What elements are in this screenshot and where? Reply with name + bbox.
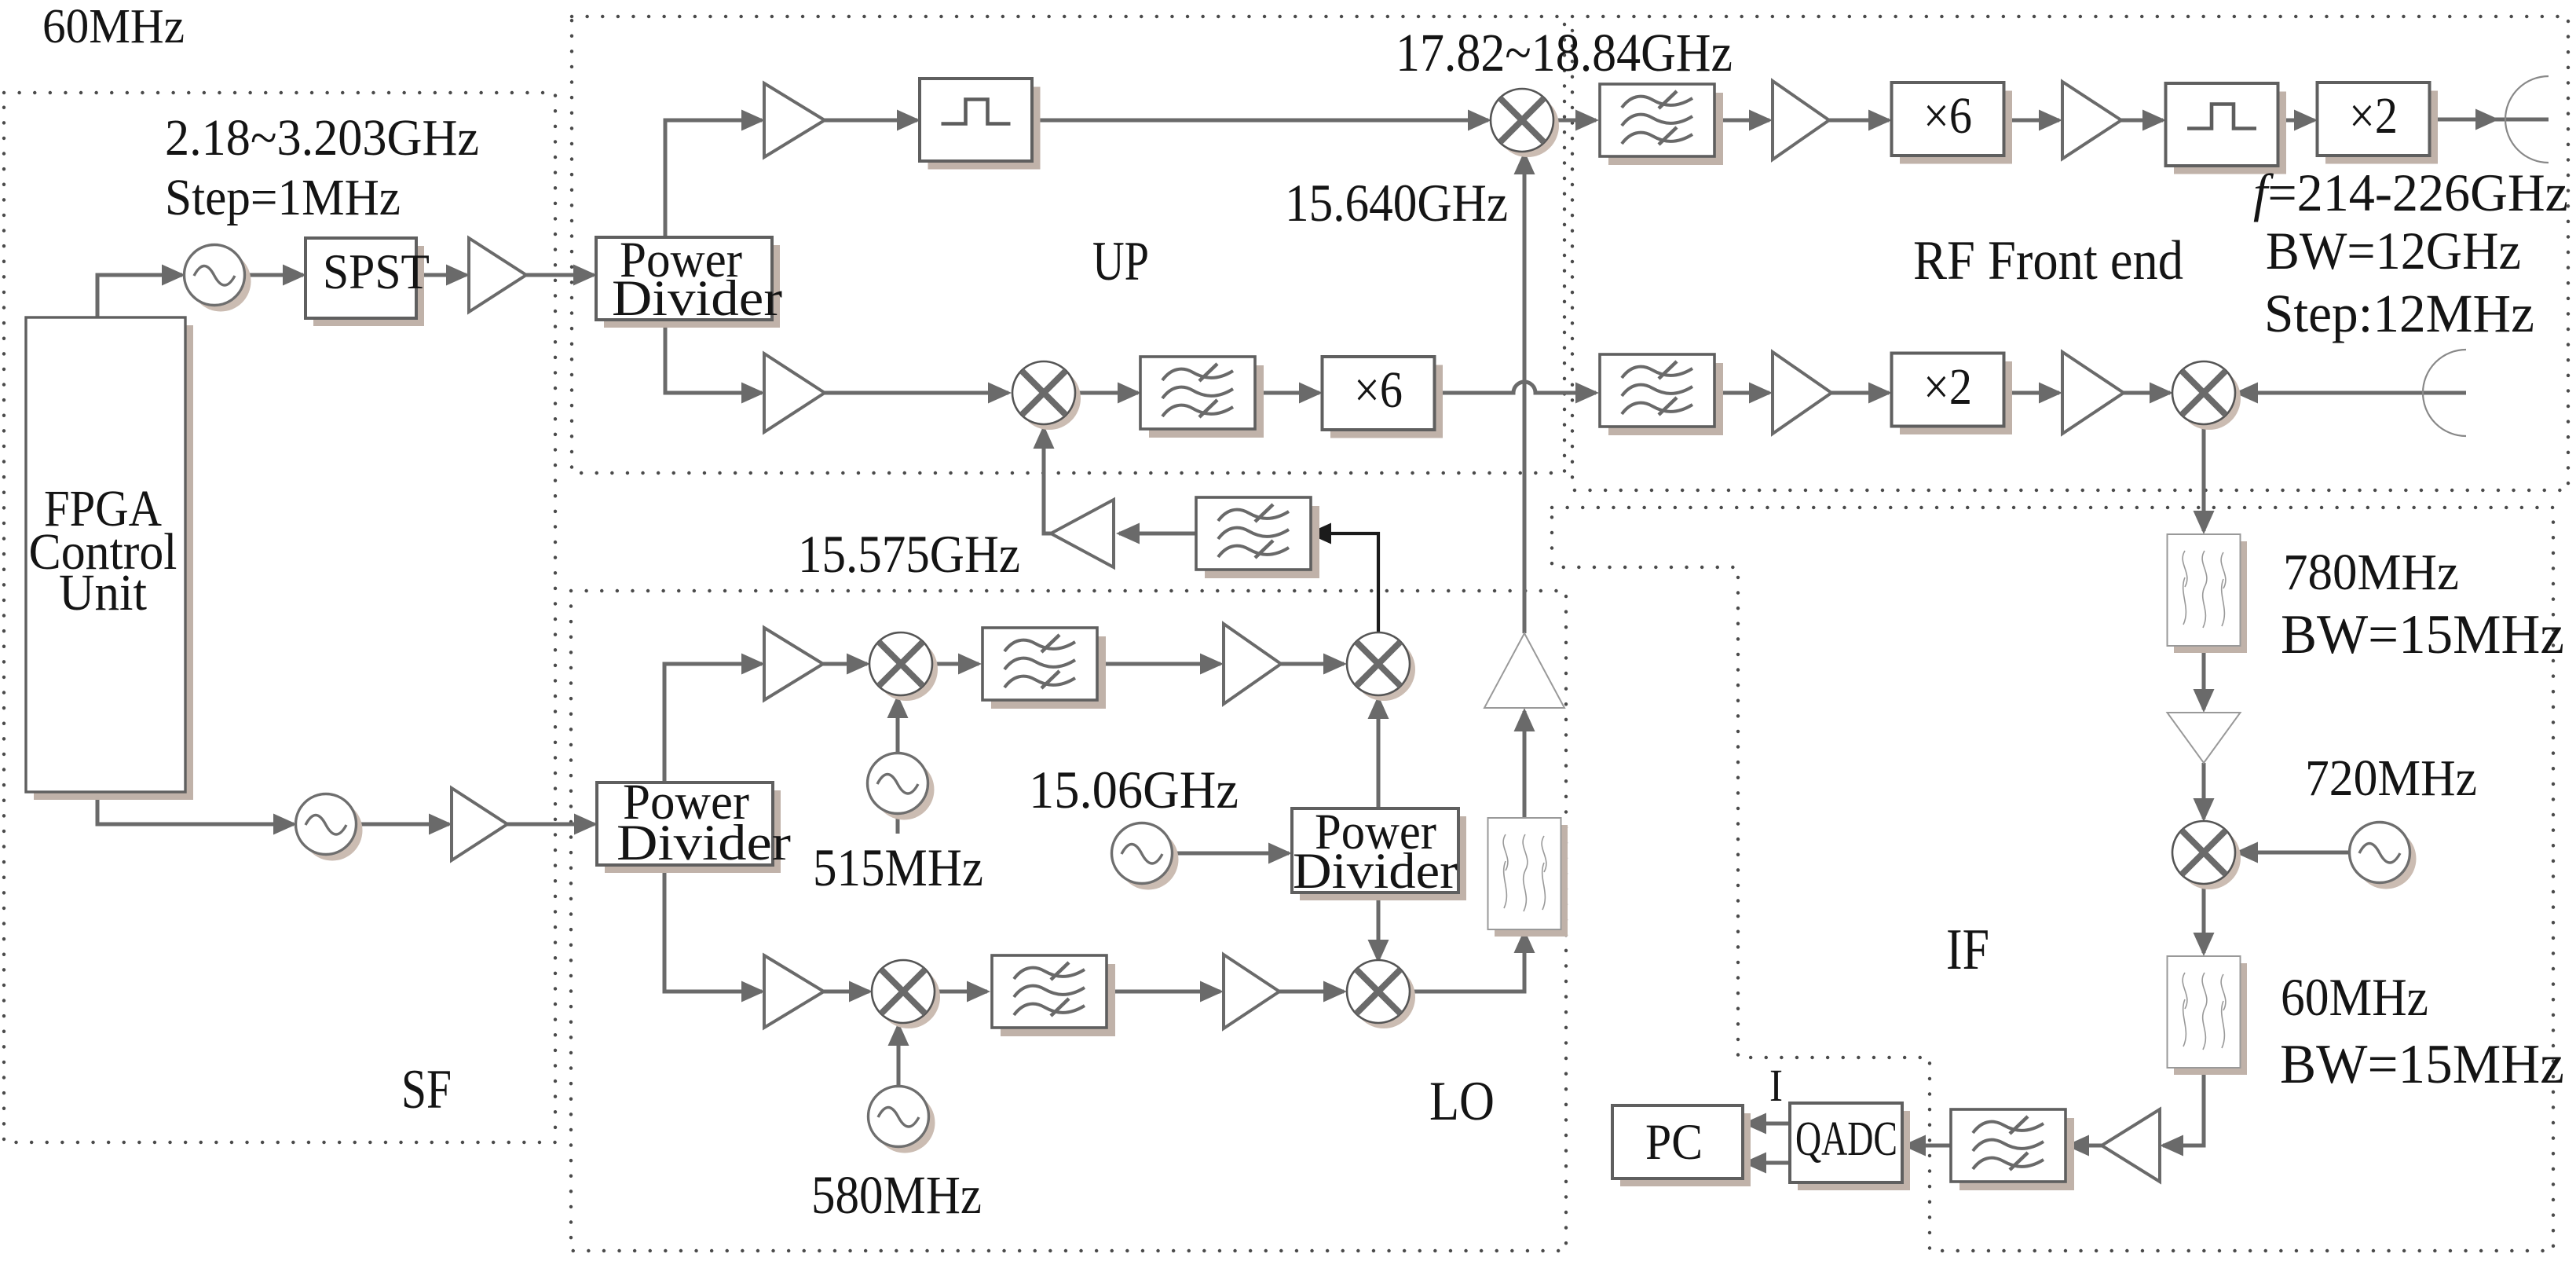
multiplier X6B box: [1892, 82, 2013, 164]
wire amp A11 to filter F9: [2069, 1144, 2102, 1148]
mixer M3: [869, 632, 938, 701]
wire arrow into PC (Q): [1743, 1153, 1766, 1174]
wire OSC1 to SPST: [244, 273, 303, 277]
wire arrow into amp A3: [741, 110, 765, 131]
svg-text:Unit: Unit: [59, 564, 147, 621]
wire arrow into mixer M3 bottom: [887, 695, 909, 718]
multiplier X6A box: [1323, 357, 1444, 438]
wire arrow into F5: [1575, 110, 1599, 131]
wire arrow into mixer M8 left: [2150, 383, 2173, 404]
wire mixer M4 to feedback filter F4 (black): [1311, 533, 1378, 632]
wire amp A2 to Power Divider PD3: [507, 823, 595, 827]
wire filter F4 to amp A5: [1119, 532, 1199, 536]
svg-text:15.06GHz: 15.06GHz: [1029, 760, 1239, 819]
svg-text:60MHz: 60MHz: [42, 0, 185, 53]
wire amp A13 to mixer M4: [1281, 662, 1344, 666]
wire X6A to RF filter F6 with hop: [1435, 382, 1596, 393]
wire arrow into F1: [1118, 383, 1141, 404]
wire amp A15 to mixer M6: [1279, 990, 1344, 994]
wire arrow into amp A10: [2194, 689, 2215, 713]
amplifier A8: [1773, 352, 1831, 434]
wire mixer M3 to filter F2: [931, 662, 979, 666]
svg-text:×2: ×2: [2349, 87, 2398, 145]
wire F6 to amp A8: [1716, 391, 1769, 395]
oscillator OSC4 580MHz: [869, 1087, 935, 1153]
wire arrow into amp A11: [2160, 1135, 2183, 1157]
wire arrow into QADC: [1902, 1135, 1926, 1157]
wire amp A8 to multiplier X2B: [1831, 391, 1889, 395]
svg-text:Divider: Divider: [617, 815, 791, 871]
wire QADC Q output to PC: [1746, 1161, 1790, 1165]
bandpass filter F1: [1140, 357, 1264, 438]
pulse shaper U1: [920, 79, 1041, 170]
wire arrow into OSC1: [162, 265, 185, 286]
wire arrow into F9: [2066, 1135, 2089, 1157]
wire arrow into amp A1: [446, 265, 470, 286]
svg-text:PC: PC: [1645, 1114, 1703, 1171]
wire arrow into mixer M9: [2194, 798, 2215, 822]
Power Divider PD2: [1292, 808, 1466, 900]
wire amp A3 to pulse shaper U1: [825, 119, 917, 123]
svg-text:15.640GHz: 15.640GHz: [1285, 173, 1508, 233]
wire OSC2 to amp A2: [356, 823, 449, 827]
wire arrow into F4 (black): [1308, 523, 1331, 544]
wire arrow into F6: [1575, 383, 1599, 404]
oscillator OSC1 (2.18~3.203GHz source): [185, 245, 251, 312]
pulse shaper U2: [2166, 83, 2287, 174]
wire mixer M5 to filter F3: [934, 990, 987, 994]
oscillator OSC2 (SF source): [296, 794, 363, 861]
wire PD2 bottom output to mixer M6: [1377, 893, 1381, 960]
wire OSC3 stem: [896, 812, 900, 834]
wire arrow into mixer M6 top: [1368, 940, 1389, 963]
wire arrow into PD1: [573, 265, 597, 286]
svg-text:Divider: Divider: [1293, 843, 1458, 900]
bandpass filter F7 780MHz: [2168, 534, 2248, 653]
svg-text:720MHz: 720MHz: [2305, 750, 2477, 807]
svg-text:I: I: [1769, 1060, 1783, 1111]
bandpass filter F8 60MHz: [2168, 956, 2248, 1075]
bandpass filter F6: [1600, 354, 1723, 435]
mixer M5: [872, 960, 940, 1028]
wire arrow into amp A8: [1749, 383, 1773, 404]
bandpass filter F10: [1488, 818, 1568, 937]
wire PD2 top output to mixer M4: [1377, 698, 1381, 808]
amplifier A6: [1773, 81, 1829, 159]
svg-text:RF Front end: RF Front end: [1913, 230, 2183, 291]
wire arrow into mixer M8: [2234, 383, 2258, 404]
wire RX antenna to mixer M8: [2238, 391, 2466, 395]
amplifier A10 (points down): [2168, 713, 2241, 763]
wire U2 to multiplier X2A: [2278, 119, 2314, 123]
mixer M6: [1347, 960, 1415, 1028]
multiplier X2A box: [2318, 82, 2439, 164]
wire PD1 bottom output to amp A4: [665, 320, 762, 393]
wire arrow into mixer M1 bottom: [1514, 151, 1535, 174]
UP region dotted box: [572, 16, 1564, 473]
wire arrow into amp A16: [1514, 708, 1535, 731]
wire mixer M2 to filter F1: [1076, 391, 1138, 395]
Power Divider PD1: [596, 237, 780, 328]
wire arrow into F8: [2194, 933, 2215, 956]
wire arrow into U1: [897, 110, 920, 131]
wire arrow into amp A7: [2039, 110, 2062, 131]
wire F3 to amp A15: [1108, 990, 1220, 994]
svg-text:580MHz: 580MHz: [811, 1165, 982, 1225]
wire amp A14 to mixer M5: [824, 990, 869, 994]
svg-text:Step=1MHz: Step=1MHz: [165, 169, 401, 226]
bandpass filter F3: [992, 955, 1115, 1036]
mixer M1 (17.82~18.84GHz): [1491, 89, 1559, 157]
wire arrow into X6A: [1299, 383, 1323, 404]
wire arrow into mixer M2 bottom: [1034, 425, 1055, 449]
mixer M9 (IF): [2172, 821, 2241, 889]
wire F2 to amp A13: [1099, 662, 1220, 666]
svg-text:Step:12MHz: Step:12MHz: [2264, 284, 2534, 343]
wire PD3 top output to amp A12: [664, 664, 762, 783]
svg-text:BW=12GHz: BW=12GHz: [2266, 221, 2521, 280]
Power Divider PD3: [597, 783, 781, 873]
wire arrow into mixer M9 right: [2234, 842, 2258, 863]
SF region dotted box: [4, 93, 555, 1142]
oscillator OSC6 720MHz: [2350, 823, 2417, 889]
wire arrow into X2A: [2294, 110, 2318, 131]
amplifier A5 (feedback, points left): [1051, 500, 1114, 567]
wire QADC I output to PC: [1746, 1122, 1790, 1126]
wire OSC5 15.06GHz to Power Divider PD2: [1170, 852, 1289, 856]
wire arrow into X6B: [1868, 110, 1892, 131]
bandpass filter F9: [1951, 1109, 2074, 1190]
wire mixer M8 down to filter F7: [2202, 423, 2206, 531]
switch SPST S1: [306, 238, 424, 326]
FPGA Control Unit box U3: [26, 317, 193, 800]
wire PD3 bottom output to amp A14: [664, 865, 762, 992]
wire OSC4 580MHz up to mixer M5: [897, 1025, 901, 1087]
svg-text:f=214-226GHz: f=214-226GHz: [2253, 163, 2568, 222]
svg-text:2.18~3.203GHz: 2.18~3.203GHz: [165, 109, 479, 167]
amplifier A14: [764, 955, 824, 1028]
wire arrow into mixer M1: [1468, 110, 1491, 131]
wire X2A to TX antenna: [2429, 118, 2549, 122]
wire mixer M9 to filter F8: [2202, 883, 2206, 953]
wire mixer M6 right and up to filter F10: [1410, 933, 1524, 992]
svg-text:×6: ×6: [1354, 361, 1403, 419]
svg-text:515MHz: 515MHz: [813, 838, 983, 897]
wire F10 up to amp A16: [1523, 711, 1527, 818]
svg-text:×2: ×2: [1923, 358, 1972, 416]
mixer M2: [1012, 361, 1081, 430]
LO region dotted box: [571, 591, 1566, 1251]
wire LO drive line 15.640GHz to mixer M1: [1523, 154, 1527, 633]
wire arrow into mixer M4 bottom: [1368, 695, 1389, 719]
wire amp A6 to multiplier X6B: [1829, 119, 1889, 123]
wire arrow into F2: [958, 654, 982, 675]
mixer M8 (RX): [2172, 361, 2241, 430]
svg-text:BW=15MHz: BW=15MHz: [2281, 604, 2564, 665]
wire arrow into amp A6: [1749, 110, 1773, 131]
wire OSC3 515MHz up to mixer M3: [896, 698, 900, 754]
amplifier A13: [1224, 624, 1281, 704]
svg-text:UP: UP: [1092, 231, 1149, 292]
amplifier A2: [452, 788, 507, 860]
wire arrow into amp A14: [741, 981, 765, 1003]
RF Front end region dotted box: [1572, 16, 2568, 490]
wire arrow into amp A15: [1200, 981, 1224, 1003]
wire PD1 top output to amp A3: [665, 120, 762, 237]
svg-text:Divider: Divider: [612, 270, 782, 327]
wire filter F1 to multiplier X6A: [1255, 391, 1319, 395]
wire X2B to amp A9: [2003, 391, 2059, 395]
wire U1 to mixer M1: [1032, 119, 1488, 123]
wire mixer M1 to RF filter F5: [1553, 119, 1596, 123]
svg-text:17.82~18.84GHz: 17.82~18.84GHz: [1396, 23, 1733, 82]
svg-text:QADC: QADC: [1795, 1113, 1897, 1166]
svg-text:IF: IF: [1946, 918, 1989, 982]
wire F7 to amp A10: [2202, 646, 2206, 709]
wire arrow into U2: [2142, 110, 2166, 131]
wire arrow mid arrow to antenna: [2475, 109, 2499, 130]
wire amp A1 to Power Divider PD1: [526, 273, 594, 277]
wire amp A12 to mixer M3: [823, 662, 867, 666]
amplifier A9: [2062, 352, 2124, 434]
amplifier A16 (LO output, points up): [1484, 633, 1564, 708]
oscillator OSC3 515MHz: [868, 753, 935, 820]
wire arrow into SPST: [283, 265, 306, 286]
wire arrow into mixer M2: [988, 383, 1012, 404]
wire arrow into mixer M3: [847, 654, 870, 675]
wire arrow into F7: [2194, 511, 2215, 534]
amplifier A11 (IF, points left): [2102, 1109, 2160, 1182]
bandpass filter F5: [1600, 84, 1723, 165]
wire FPGA to OSC2: [97, 792, 294, 824]
IF region dotted boundary: [1552, 508, 2553, 1251]
svg-text:15.575GHz: 15.575GHz: [798, 524, 1020, 584]
wire arrow into PC (I): [1743, 1113, 1766, 1135]
wire arrow into mixer M4: [1323, 654, 1347, 675]
wire arrow into OSC2: [273, 814, 297, 835]
svg-text:LO: LO: [1429, 1071, 1495, 1132]
amplifier A3: [764, 83, 825, 157]
wire arrow into F10: [1514, 929, 1535, 953]
wire arrow into amp A12: [741, 654, 765, 675]
wire arrow into mixer M5 bottom: [888, 1022, 909, 1046]
antenna RX: [2423, 350, 2466, 436]
wire arrow into amp A5: [1116, 523, 1140, 544]
wire F5 to amp A6: [1716, 119, 1769, 123]
bandpass filter F4 (15.575GHz feedback): [1196, 497, 1319, 578]
svg-text:780MHz: 780MHz: [2283, 544, 2459, 601]
amplifier A15: [1224, 955, 1279, 1028]
amplifier A1: [469, 238, 526, 312]
wire amp A5 up to mixer M2: [1044, 428, 1051, 533]
wire arrow into amp A9: [2039, 383, 2062, 404]
wire X6B to amp A7: [2003, 119, 2059, 123]
wire FPGA to OSC1: [97, 275, 182, 317]
wire F8 down and left to amp A11: [2163, 1068, 2204, 1146]
QADC box: [1790, 1103, 1910, 1190]
bandpass filter F2: [982, 628, 1106, 709]
wire arrow into mixer M6: [1323, 981, 1347, 1003]
multiplier X2B box: [1892, 354, 2013, 435]
svg-text:SPST: SPST: [323, 244, 430, 299]
wire arrow into amp A13: [1200, 654, 1224, 675]
wire OSC6 720MHz to mixer M9: [2238, 851, 2351, 855]
svg-text:60MHz: 60MHz: [2281, 967, 2428, 1027]
wire filter F9 to QADC: [1905, 1144, 1951, 1148]
svg-text:×6: ×6: [1923, 87, 1972, 145]
wire amp A7 to pulse shaper U2: [2121, 119, 2163, 123]
wire arrow into amp A4: [741, 383, 765, 404]
amplifier A12: [764, 628, 823, 700]
wire arrow into F3: [967, 981, 990, 1003]
antenna TX: [2505, 76, 2549, 163]
wire arrow into mixer M5: [849, 981, 873, 1003]
mixer M4: [1347, 632, 1415, 701]
oscillator OSC5 15.06GHz: [1112, 823, 1179, 890]
wire arrow into X2B: [1868, 383, 1892, 404]
svg-text:SF: SF: [401, 1059, 452, 1120]
wire amp A9 to mixer M8: [2124, 391, 2170, 395]
wire amp A4 to mixer M2: [825, 391, 1008, 395]
PC box: [1612, 1105, 1751, 1186]
wire arrow into PD2: [1268, 843, 1292, 864]
amplifier A7: [2062, 82, 2121, 159]
wire SPST to amp A1: [416, 273, 467, 277]
svg-text:BW=15MHz: BW=15MHz: [2280, 1034, 2564, 1095]
wire amp A10 to mixer M9: [2202, 763, 2206, 819]
amplifier A4: [764, 354, 825, 432]
wire arrow into amp A2: [429, 814, 452, 835]
wire arrow into PD3: [574, 814, 598, 835]
